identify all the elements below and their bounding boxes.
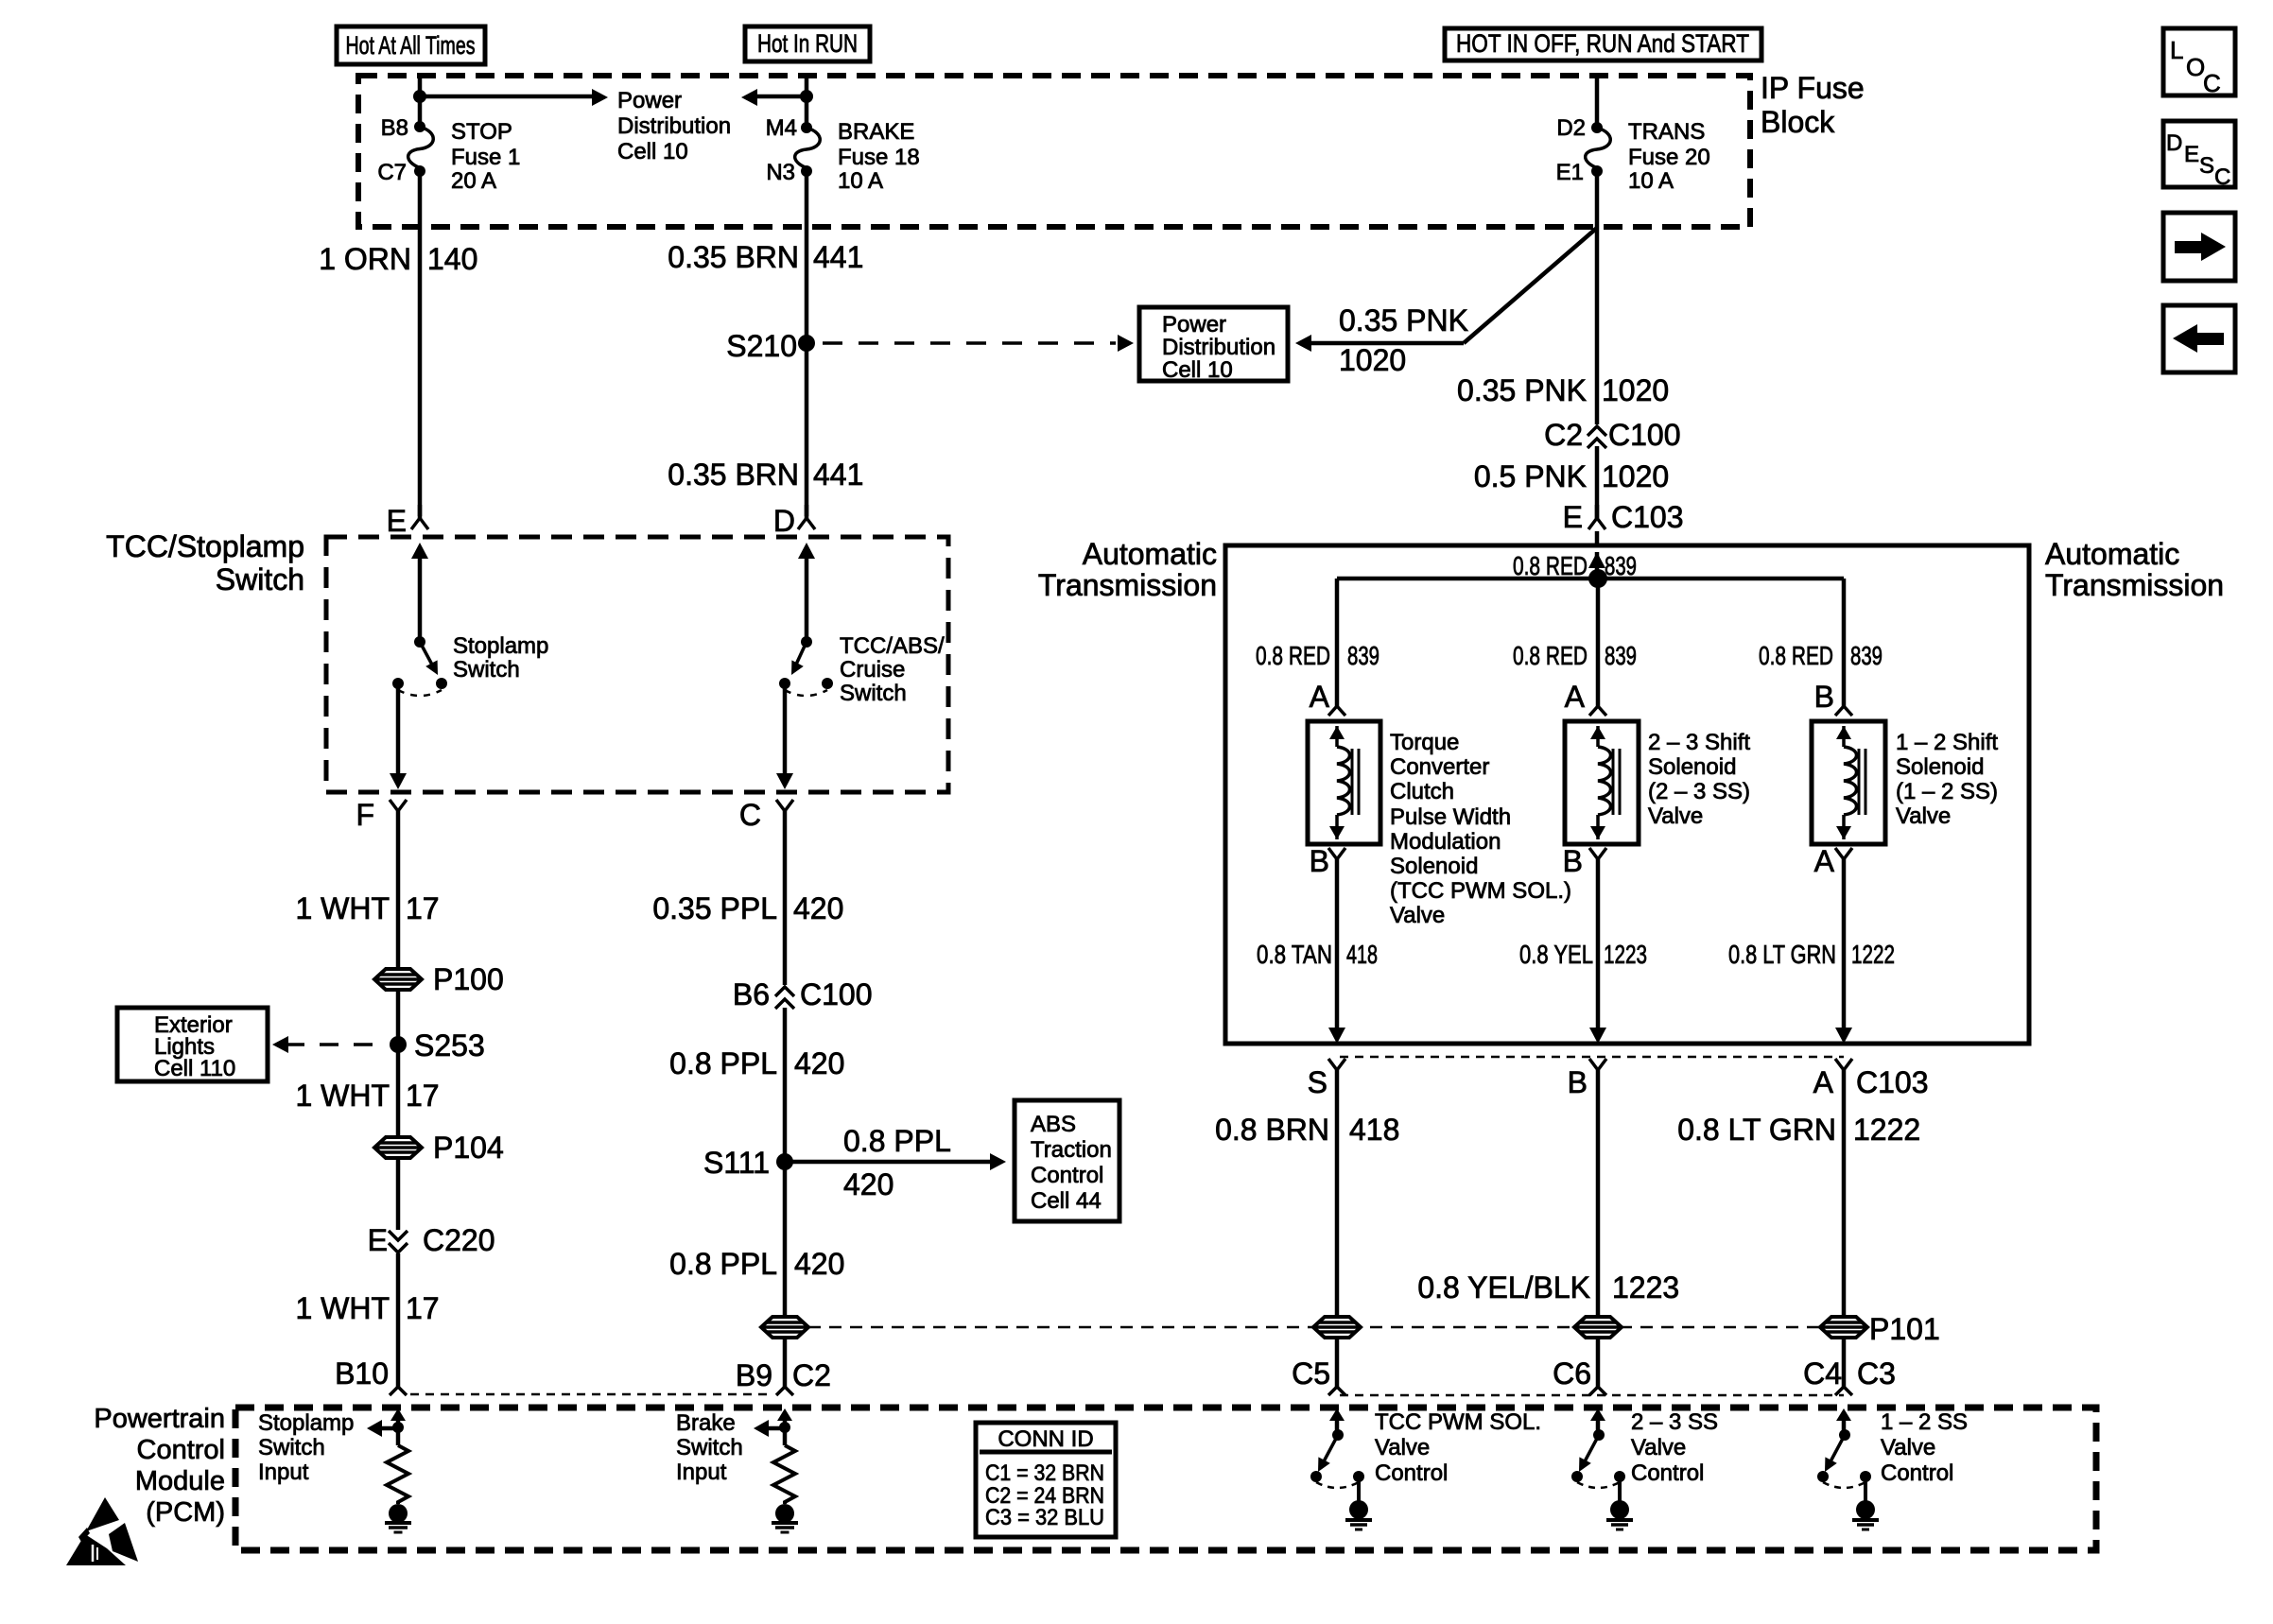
arrowhead into ABS box — [990, 1153, 1006, 1170]
svg-text:E: E — [368, 1223, 388, 1257]
wire: 1 ORN 140 down to E — [418, 227, 423, 516]
arrowhead up at box entry — [411, 543, 428, 559]
svg-text:Clutch: Clutch — [1390, 779, 1454, 804]
svg-text:Valve: Valve — [1896, 803, 1951, 829]
svg-text:F: F — [356, 798, 374, 832]
svg-text:0.8 BRN: 0.8 BRN — [1215, 1113, 1329, 1147]
svg-text:0.35 BRN: 0.35 BRN — [668, 458, 799, 492]
svg-text:S253: S253 — [414, 1028, 485, 1063]
svg-text:Switch: Switch — [258, 1435, 325, 1460]
svg-text:HOT IN OFF, RUN And START: HOT IN OFF, RUN And START — [1456, 29, 1749, 58]
svg-text:Fuse 18: Fuse 18 — [838, 145, 920, 170]
svg-text:Hot In RUN: Hot In RUN — [757, 29, 858, 58]
label 1-2 Shift Solenoid Valve — [1896, 730, 1998, 829]
svg-text:Control: Control — [1375, 1460, 1448, 1486]
junction dot (brake input) — [779, 1422, 790, 1433]
svg-text:1222: 1222 — [1851, 940, 1895, 969]
fuse F18: BRAKE Fuse 18 10 A — [795, 122, 821, 177]
pin N3 — [766, 160, 795, 185]
fuse F20: TRANS Fuse 20 10 A — [1586, 122, 1611, 177]
solenoid L2 coil symbol — [1590, 726, 1620, 839]
label F and terminal — [356, 798, 407, 832]
svg-text:C220: C220 — [423, 1223, 495, 1257]
svg-text:Switch: Switch — [840, 681, 907, 706]
svg-text:Valve: Valve — [1375, 1435, 1430, 1460]
svg-text:Cell 110: Cell 110 — [154, 1056, 235, 1081]
svg-text:B9: B9 — [736, 1358, 772, 1392]
label 2-3 Shift Solenoid Valve — [1648, 730, 1750, 829]
power label box: Hot At All Times — [337, 26, 485, 64]
label Stoplamp Switch — [453, 633, 548, 682]
terminal D — [798, 505, 815, 529]
svg-text:10 A: 10 A — [838, 168, 883, 194]
svg-text:Control: Control — [1631, 1460, 1704, 1486]
svg-text:839: 839 — [1605, 551, 1637, 580]
svg-text:Fuse 1: Fuse 1 — [451, 145, 520, 170]
wire: S210 down to D — [805, 343, 809, 516]
svg-text:C100: C100 — [1608, 418, 1681, 452]
dashed wire: S253 to Exterior Lights — [286, 1043, 388, 1046]
svg-text:1 – 2 Shift: 1 – 2 Shift — [1896, 730, 1998, 755]
label 1 ORN 140 — [319, 242, 477, 276]
wire: 0.35 PNK 1020 down to C2/C100 — [1595, 227, 1600, 424]
inline connector (left, on dashed P101 line) — [761, 1317, 808, 1338]
arrowhead down at box exit — [390, 773, 407, 789]
label 0.35 PNK / 1020 (branch) — [1339, 303, 1468, 377]
pin A (1-2 sol) — [1814, 844, 1852, 878]
svg-text:17: 17 — [406, 891, 440, 925]
svg-text:1 WHT: 1 WHT — [295, 891, 390, 925]
svg-text:S111: S111 — [703, 1146, 770, 1180]
junction dot (stoplamp input) — [392, 1422, 404, 1433]
svg-text:0.8 RED: 0.8 RED — [1513, 551, 1588, 580]
wire: S253 to P104 — [295, 1045, 439, 1138]
svg-text:A: A — [1310, 680, 1330, 714]
wire: diagonal 0.35 PNK branch — [1464, 228, 1597, 343]
inline connector P101 (left) — [1313, 1317, 1361, 1338]
label D (conn at TCC box) — [773, 504, 795, 538]
pin C5 and terminal — [1292, 1356, 1345, 1395]
svg-text:E: E — [1563, 500, 1583, 534]
resistor (stoplamp input) — [387, 1427, 408, 1504]
arrowhead up at box entry (right) — [798, 543, 815, 559]
fuse F1: STOP Fuse 1 20 A — [408, 121, 434, 177]
label 2-3 SS Valve Control — [1631, 1409, 1718, 1486]
svg-text:Valve: Valve — [1390, 903, 1445, 928]
solenoid L1 coil symbol — [1329, 726, 1359, 839]
svg-text:1 ORN: 1 ORN — [319, 242, 411, 276]
wire: 839 branch to TCC PWM solenoid — [1335, 579, 1340, 706]
svg-text:Input: Input — [676, 1460, 727, 1485]
svg-text:C1 = 32 BRN: C1 = 32 BRN — [985, 1460, 1104, 1486]
pin A C103 and terminal — [1813, 1059, 1929, 1099]
terminal E — [411, 505, 428, 529]
svg-text:C4: C4 — [1803, 1356, 1842, 1391]
svg-text:1223: 1223 — [1604, 940, 1647, 969]
wire: into stoplamp input — [396, 1413, 401, 1427]
svg-text:140: 140 — [427, 242, 477, 276]
wire: D into TCC/ABS/Cruise switch — [805, 556, 809, 642]
svg-text:C103: C103 — [1611, 500, 1684, 534]
wire: 0.8 YEL 1223 to box bottom — [1519, 859, 1647, 1030]
svg-text:1222: 1222 — [1853, 1113, 1920, 1147]
svg-text:Hot At All Times: Hot At All Times — [346, 31, 476, 60]
label BRAKE Fuse 18 10 A — [838, 119, 920, 194]
svg-text:Valve: Valve — [1631, 1435, 1686, 1460]
Automatic Transmission box — [1225, 545, 2029, 1044]
pin B and terminal — [1568, 1059, 1606, 1099]
svg-text:C100: C100 — [800, 977, 873, 1011]
svg-text:Switch: Switch — [216, 562, 304, 596]
wire: 0.8 TAN 418 to box bottom — [1257, 859, 1378, 1030]
svg-text:20 A: 20 A — [451, 168, 496, 194]
svg-text:(TCC PWM SOL.): (TCC PWM SOL.) — [1390, 878, 1571, 904]
splice S111 — [703, 1146, 793, 1180]
pin B (2-3 sol) — [1563, 844, 1606, 878]
splice S210 — [726, 329, 815, 363]
svg-text:0.8 RED: 0.8 RED — [1256, 641, 1330, 670]
solenoid L3 coil symbol — [1836, 726, 1865, 839]
svg-text:(PCM): (PCM) — [146, 1497, 225, 1528]
svg-text:(1 – 2 SS): (1 – 2 SS) — [1896, 779, 1998, 804]
svg-text:Solenoid: Solenoid — [1390, 854, 1478, 879]
wire: 0.8 YEL/BLK 1223 (B to P101) — [1417, 1070, 1679, 1318]
svg-text:441: 441 — [813, 240, 863, 274]
svg-text:ABS: ABS — [1031, 1112, 1076, 1137]
svg-text:Automatic: Automatic — [2045, 537, 2179, 571]
svg-text:M4: M4 — [766, 115, 797, 141]
wire: BRAKE fuse to block bottom — [805, 171, 809, 227]
label 0.8 RED 839 (center branch) — [1513, 641, 1637, 670]
wire: 1 WHT 17 (C220 to B10) — [295, 1253, 439, 1387]
label E C103 and terminal — [1563, 500, 1684, 534]
svg-text:C5: C5 — [1292, 1356, 1330, 1391]
TCC/ABS/Cruise switch blade — [791, 642, 807, 675]
svg-text:D2: D2 — [1556, 115, 1586, 141]
pin B8 — [381, 115, 408, 141]
wire: 0.35 BRN from fuse block to S210 — [805, 227, 809, 343]
svg-text:C3: C3 — [1857, 1356, 1896, 1391]
label C and terminal — [739, 798, 793, 832]
svg-text:Solenoid: Solenoid — [1896, 754, 1984, 780]
ground (stoplamp input) — [385, 1504, 411, 1532]
svg-text:17: 17 — [406, 1079, 440, 1113]
svg-text:Control: Control — [1031, 1163, 1103, 1188]
wire: stub from fuse block top to D2 (x=1689) — [1595, 76, 1600, 128]
svg-text:A: A — [1813, 1065, 1834, 1099]
svg-text:Switch: Switch — [676, 1435, 743, 1460]
svg-text:Distribution: Distribution — [1162, 335, 1275, 360]
label Brake Switch Input — [676, 1410, 743, 1485]
Exterior Lights Cell 110 box — [117, 1008, 268, 1081]
svg-text:1 WHT: 1 WHT — [295, 1291, 390, 1325]
pin C6 and terminal — [1553, 1356, 1606, 1395]
svg-text:C103: C103 — [1856, 1065, 1929, 1099]
label Torque Converter Clutch PWM Solenoid Valve — [1390, 730, 1571, 928]
label IP Fuse Block — [1761, 71, 1865, 139]
wire: 839 branch to 2-3 solenoid — [1596, 579, 1601, 706]
pin A (TCC PWM sol) — [1310, 680, 1345, 716]
wire: into brake input — [783, 1413, 788, 1427]
svg-text:0.35 PNK: 0.35 PNK — [1339, 303, 1468, 337]
svg-text:P100: P100 — [433, 962, 504, 996]
svg-text:Converter: Converter — [1390, 754, 1489, 780]
svg-text:Distribution: Distribution — [617, 113, 731, 139]
wire: 0.8 BRN 418 (S to P101) — [1215, 1070, 1399, 1318]
wire: TRANS fuse to block bottom — [1595, 171, 1600, 227]
TCC/Stoplamp Switch dashed box — [326, 537, 948, 792]
stoplamp switch pivot — [414, 636, 425, 648]
svg-text:P101: P101 — [1869, 1312, 1940, 1346]
label Automatic Transmission (right) — [2045, 537, 2224, 602]
DESC icon box — [2163, 121, 2235, 190]
svg-text:Valve: Valve — [1648, 803, 1703, 829]
pin B9 / C2 and terminal — [736, 1358, 831, 1395]
stoplamp switch travel arc (dashed) — [398, 690, 442, 696]
solenoid L1: TCC PWM box — [1308, 721, 1380, 844]
svg-text:Module: Module — [135, 1466, 225, 1496]
svg-text:C6: C6 — [1553, 1356, 1591, 1391]
label 0.8 LT GRN 1222 (lower) — [1677, 1113, 1920, 1147]
svg-text:Input: Input — [258, 1460, 309, 1485]
svg-text:Control: Control — [1881, 1460, 1953, 1486]
svg-text:1 – 2 SS: 1 – 2 SS — [1881, 1409, 1968, 1435]
svg-text:0.8 TAN: 0.8 TAN — [1257, 940, 1332, 969]
svg-text:17: 17 — [406, 1291, 440, 1325]
inline connector P101 (right) — [1820, 1312, 1940, 1346]
solenoid L2: 2-3 shift box — [1565, 721, 1639, 844]
svg-text:0.8 PPL: 0.8 PPL — [843, 1124, 951, 1158]
wire: branch left (stoplamp input) — [374, 1426, 398, 1431]
svg-text:Powertrain: Powertrain — [94, 1404, 225, 1434]
TCC/ABS/Cruise travel arc (dashed) — [785, 690, 827, 696]
svg-text:C7: C7 — [377, 160, 407, 185]
label 0.8 PPL / 420 (branch) — [843, 1124, 951, 1201]
wire: branch arrow to Power Distribution (left) — [754, 95, 807, 99]
arrowhead right — [592, 89, 608, 106]
wire: 0.8 LT GRN 1222 to box bottom — [1728, 859, 1895, 1030]
label 0.5 PNK 1020 — [1474, 459, 1669, 493]
svg-text:839: 839 — [1347, 641, 1379, 670]
svg-text:E: E — [387, 504, 407, 538]
CONN ID table — [976, 1423, 1116, 1537]
wire: stub from fuse block top to node (x=444) — [418, 76, 423, 127]
svg-text:420: 420 — [794, 1046, 844, 1080]
svg-text:1020: 1020 — [1602, 459, 1669, 493]
arrowhead into Power Distribution box (right side) — [1295, 335, 1311, 352]
svg-text:Power: Power — [617, 88, 682, 113]
wire: branch left (brake input) — [761, 1426, 785, 1431]
svg-text:0.8 PPL: 0.8 PPL — [669, 1046, 777, 1080]
svg-text:1 WHT: 1 WHT — [295, 1079, 390, 1113]
label 0.35 PNK 1020 — [1457, 373, 1669, 407]
inline connector P100 — [374, 962, 504, 996]
svg-text:TRANS: TRANS — [1628, 119, 1705, 145]
svg-text:10 A: 10 A — [1628, 168, 1674, 194]
forward arrow icon box — [2163, 213, 2235, 281]
svg-text:839: 839 — [1605, 641, 1637, 670]
svg-text:1020: 1020 — [1339, 343, 1406, 377]
svg-text:B: B — [1310, 844, 1329, 878]
wire: 0.8 PPL 420 (C100 to S111) — [669, 1008, 844, 1162]
wire: TCC/ABS/Cruise switch to C — [783, 683, 788, 776]
svg-text:Solenoid: Solenoid — [1648, 754, 1736, 780]
inline connector B6 C100 — [733, 977, 873, 1011]
svg-text:1223: 1223 — [1612, 1270, 1679, 1304]
wire: E C103 into box — [1595, 531, 1600, 545]
wire: E into stoplamp switch — [418, 556, 423, 642]
svg-text:B: B — [1814, 680, 1834, 714]
label Power Distribution Cell 10 (left) — [617, 88, 731, 164]
pin E1 — [1556, 160, 1584, 185]
pin S and terminal — [1308, 1059, 1345, 1099]
svg-text:Stoplamp: Stoplamp — [258, 1410, 354, 1436]
svg-text:B: B — [1568, 1065, 1588, 1099]
wire: 0.8 LT GRN 1222 (A to P101) — [1842, 1070, 1847, 1318]
svg-text:S210: S210 — [726, 329, 797, 363]
svg-text:A: A — [1565, 680, 1586, 714]
svg-text:B: B — [1563, 844, 1583, 878]
svg-text:0.8 LT GRN: 0.8 LT GRN — [1728, 940, 1836, 969]
pin C4 / C3 and terminal — [1803, 1356, 1896, 1395]
svg-text:420: 420 — [843, 1167, 894, 1201]
svg-text:Control: Control — [137, 1435, 226, 1465]
svg-text:Valve: Valve — [1881, 1435, 1935, 1460]
ground (brake input) — [772, 1504, 798, 1532]
stoplamp switch blade — [420, 642, 438, 675]
svg-text:IP Fuse: IP Fuse — [1761, 71, 1865, 105]
label Stoplamp Switch Input — [258, 1410, 354, 1485]
svg-text:L: L — [2170, 36, 2183, 64]
switch: 2-3 SS valve control — [1571, 1408, 1633, 1529]
svg-text:0.8 RED: 0.8 RED — [1513, 641, 1588, 670]
svg-text:0.35 PNK: 0.35 PNK — [1457, 373, 1587, 407]
svg-text:TCC PWM SOL.: TCC PWM SOL. — [1375, 1409, 1541, 1435]
svg-text:Fuse 20: Fuse 20 — [1628, 145, 1710, 170]
svg-text:C3 = 32 BLU: C3 = 32 BLU — [985, 1505, 1104, 1530]
svg-text:C2: C2 — [1544, 418, 1583, 452]
svg-text:B8: B8 — [381, 115, 408, 141]
svg-text:420: 420 — [793, 891, 843, 925]
power label box: Hot In RUN — [745, 26, 870, 61]
svg-text:Block: Block — [1761, 105, 1835, 139]
svg-text:D: D — [2166, 130, 2182, 156]
svg-text:0.8 YEL: 0.8 YEL — [1519, 940, 1593, 969]
svg-text:0.35 PPL: 0.35 PPL — [652, 891, 777, 925]
arrowhead down at box bottom (B) — [1589, 1028, 1606, 1044]
pin D2 — [1556, 115, 1586, 141]
svg-text:0.8 PPL: 0.8 PPL — [669, 1247, 777, 1281]
wire: 0.35 PPL 420 (C to C100) — [652, 826, 843, 985]
svg-text:Brake: Brake — [676, 1410, 736, 1436]
arrowhead into Power Distribution box — [1118, 335, 1134, 352]
arrowhead left (stoplamp input) — [367, 1420, 382, 1437]
svg-text:Transmission: Transmission — [1038, 568, 1217, 602]
wire: P100 to S253 — [396, 989, 401, 1045]
label 0.35 BRN 441 (upper) — [668, 240, 863, 274]
svg-text:Transmission: Transmission — [2045, 568, 2224, 602]
pin A (2-3 sol) — [1565, 680, 1606, 716]
label TCC PWM SOL. Valve Control — [1375, 1409, 1541, 1486]
svg-text:0.8 YEL/BLK: 0.8 YEL/BLK — [1417, 1270, 1590, 1304]
inline connector E C220 — [368, 1223, 495, 1257]
switch: TCC PWM SOL valve control — [1310, 1408, 1372, 1529]
svg-text:Torque: Torque — [1390, 730, 1459, 755]
wire: S111 down to inline connector — [669, 1162, 844, 1318]
svg-text:A: A — [1814, 844, 1835, 878]
C103 connector dashed line — [1340, 1056, 1844, 1059]
svg-text:STOP: STOP — [451, 119, 512, 145]
ESD warning symbol — [66, 1497, 138, 1565]
stoplamp switch contacts — [392, 678, 447, 689]
arrowhead left (brake input) — [754, 1420, 769, 1437]
svg-text:C: C — [739, 798, 761, 832]
inline connector C2 C100 — [1544, 418, 1680, 452]
connector face dashed line B10-B9 — [410, 1393, 773, 1396]
inline connector P101 (center) — [1574, 1317, 1622, 1338]
svg-text:B10: B10 — [335, 1356, 389, 1391]
ABS Traction Control Cell 44 box — [1015, 1100, 1119, 1221]
node at top of BRAKE fuse — [800, 90, 813, 103]
wire: STOP fuse to block bottom — [418, 171, 423, 227]
label TCC/ABS/Cruise Switch — [840, 633, 945, 706]
svg-text:C: C — [2214, 164, 2230, 190]
TCC/ABS/Cruise switch contacts — [779, 678, 833, 689]
label 0.8 RED 839 (left branch) — [1256, 641, 1379, 670]
pin C7 — [377, 160, 407, 185]
solenoid L3: 1-2 shift box — [1812, 721, 1885, 844]
label TRANS Fuse 20 10 A — [1628, 119, 1710, 194]
Powertrain Control Module dashed box — [235, 1408, 2096, 1550]
LOC icon box — [2163, 28, 2235, 97]
svg-text:420: 420 — [794, 1247, 844, 1281]
label 0.8 RED 839 (right branch) — [1759, 641, 1883, 670]
svg-text:S: S — [1308, 1065, 1327, 1099]
wire: P101 to C4/C3 — [1842, 1337, 1847, 1387]
arrowhead up into transmission — [1588, 552, 1605, 568]
svg-text:B6: B6 — [733, 977, 770, 1011]
svg-text:D: D — [773, 504, 795, 538]
wire: 839 branch to 1-2 solenoid — [1842, 579, 1847, 706]
wire: to junction — [1595, 552, 1600, 579]
junction node 839 — [1588, 569, 1607, 588]
svg-text:S: S — [2199, 153, 2214, 179]
svg-text:Switch: Switch — [453, 657, 520, 682]
label TCC/Stoplamp Switch — [106, 529, 304, 596]
svg-text:Modulation: Modulation — [1390, 829, 1501, 855]
svg-text:Cell 10: Cell 10 — [617, 139, 688, 164]
pin M4 — [766, 115, 797, 141]
Power Distribution Cell 10 box — [1139, 307, 1288, 383]
svg-text:Cell 10: Cell 10 — [1162, 357, 1233, 383]
label STOP Fuse 1 20 A — [451, 119, 520, 194]
svg-text:Power: Power — [1162, 312, 1226, 337]
svg-text:2 – 3 Shift: 2 – 3 Shift — [1648, 730, 1750, 755]
label 0.8 RED 839 (top) — [1513, 551, 1637, 580]
svg-text:Traction: Traction — [1031, 1137, 1112, 1163]
svg-text:TCC/Stoplamp: TCC/Stoplamp — [106, 529, 304, 563]
svg-text:BRAKE: BRAKE — [838, 119, 914, 145]
back arrow icon box — [2163, 305, 2235, 372]
wire: stoplamp switch to F — [396, 683, 401, 776]
svg-text:0.35 BRN: 0.35 BRN — [668, 240, 799, 274]
svg-text:Stoplamp: Stoplamp — [453, 633, 548, 659]
resistor (brake input) — [773, 1427, 795, 1504]
label 0.35 BRN 441 (lower) — [668, 458, 863, 492]
arrowhead into Exterior Lights box — [272, 1036, 288, 1053]
wire: branch arrow to Power Distribution (right) — [420, 95, 596, 99]
wire: stub from fuse block top to node (x=853) — [805, 76, 809, 128]
